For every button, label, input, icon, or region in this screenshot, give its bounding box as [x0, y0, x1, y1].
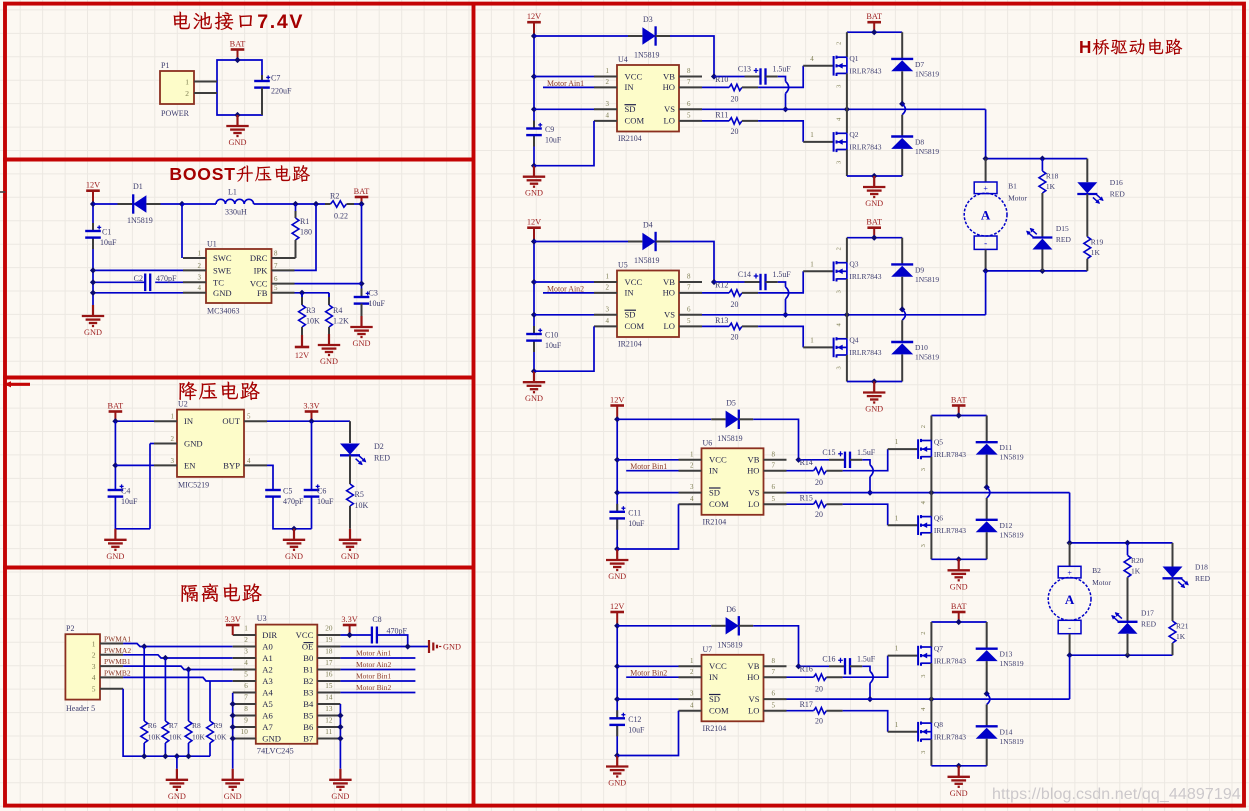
svg-text:1: 1 [606, 273, 610, 281]
svg-text:19: 19 [325, 636, 333, 644]
svg-text:GND: GND [950, 789, 968, 798]
svg-text:SD: SD [709, 694, 720, 704]
led D16 RED [1077, 159, 1125, 206]
svg-text:GND: GND [84, 328, 102, 337]
wire D18-R21 [1172, 578, 1174, 621]
wire OE to gnd [340, 646, 429, 648]
led D17 RED [1110, 608, 1157, 633]
wire SD U7 [617, 698, 678, 700]
wire R2-BAT [354, 203, 362, 205]
resistor R4 1.2K [326, 293, 349, 334]
svg-text:D14: D14 [1000, 727, 1013, 736]
wire VB to C16 [799, 665, 846, 667]
ground GND U7-bridge [948, 766, 970, 798]
svg-text:2: 2 [185, 89, 189, 98]
svg-text:C1: C1 [102, 228, 111, 237]
power 12V down boost [295, 335, 309, 360]
wire source rail U4 [847, 175, 902, 177]
ic U3 74LVC245 [233, 614, 341, 756]
svg-text:2: 2 [171, 435, 175, 443]
svg-text:3.3V: 3.3V [341, 615, 357, 624]
wire HO U6 [787, 470, 814, 472]
ground GND U3-right [329, 769, 351, 801]
svg-text:D13: D13 [1000, 650, 1013, 659]
wire BYP to C5 [267, 465, 273, 490]
node VCC-BAT junction [358, 281, 364, 287]
resistor R7 10K [162, 658, 182, 756]
wire VS3 corner to motor rail [1069, 493, 1071, 543]
node bootstrap-VS junction U6 [867, 490, 873, 496]
svg-text:GND: GND [229, 138, 247, 147]
node BAT junction U6 [956, 412, 962, 418]
svg-text:A1: A1 [262, 653, 273, 663]
wire LO U7 [787, 710, 814, 712]
node VB junction U6 [795, 457, 801, 463]
svg-text:6: 6 [274, 275, 278, 283]
ground GND C12 [606, 756, 628, 788]
diode D1 1N5819 [93, 182, 182, 225]
svg-text:D7: D7 [915, 60, 924, 69]
node FB junction [299, 290, 305, 296]
svg-text:BAT: BAT [354, 187, 370, 196]
svg-text:FB: FB [257, 288, 268, 298]
wire COM return U6 [617, 504, 678, 549]
node 12V-VCC junction U4 [531, 73, 537, 79]
wire R12 to gate [742, 260, 834, 293]
svg-text:1.5uF: 1.5uF [857, 448, 876, 457]
wire 12V rail U6 [616, 419, 618, 549]
wire BAT rail U7 [931, 621, 986, 623]
svg-text:3: 3 [920, 751, 927, 754]
transistor Q7 IRLR7843 [918, 622, 966, 699]
svg-text:C15: C15 [822, 448, 835, 457]
svg-text:220uF: 220uF [271, 87, 292, 96]
svg-text:6: 6 [244, 682, 248, 690]
svg-text:1N5819: 1N5819 [1000, 659, 1024, 668]
diode D11 1N5819 [976, 416, 1024, 488]
wire B4-B7 to ground rail [339, 704, 341, 769]
svg-text:4: 4 [277, 11, 288, 33]
svg-text:D1: D1 [133, 182, 143, 191]
node VCC junction [347, 632, 353, 638]
svg-text:VS: VS [664, 104, 675, 114]
resistor R5 10K [347, 484, 369, 529]
svg-text:2: 2 [606, 78, 610, 86]
svg-text:8: 8 [244, 705, 248, 713]
svg-text:GND: GND [353, 339, 371, 348]
ic U5 IR2104 [594, 261, 702, 349]
transistor Q5 IRLR7843 [918, 416, 966, 493]
resistor R6 10K [141, 647, 161, 757]
power bar 12V U6 [610, 395, 624, 419]
svg-text:C8: C8 [372, 615, 381, 624]
svg-text:EN: EN [184, 460, 196, 470]
resistor R18 1K [1039, 159, 1059, 193]
svg-text:Motor Ain1: Motor Ain1 [356, 649, 391, 658]
svg-text:1: 1 [895, 514, 899, 522]
diode D14 1N5819 [976, 705, 1024, 766]
svg-text:R5: R5 [355, 490, 364, 499]
ground GND pulldowns [166, 756, 188, 801]
svg-text:D11: D11 [1000, 443, 1013, 452]
svg-text:Q6: Q6 [934, 514, 943, 523]
svg-text:RED: RED [1195, 574, 1211, 583]
svg-text:10uF: 10uF [317, 497, 334, 506]
svg-text:https://blog.csdn.net/qq_44897: https://blog.csdn.net/qq_44897194 [992, 786, 1241, 803]
wire R20-D17 [1127, 577, 1129, 622]
svg-text:SD: SD [709, 487, 720, 497]
svg-text:.: . [270, 11, 275, 33]
power bar 12V boost [86, 181, 100, 205]
svg-text:1: 1 [690, 450, 694, 458]
svg-text:1K: 1K [1091, 248, 1101, 257]
node 12V-VCC junction U5 [531, 279, 537, 285]
svg-text:R14: R14 [800, 458, 813, 467]
svg-text:2: 2 [198, 262, 202, 270]
svg-text:12: 12 [325, 717, 333, 725]
wire VS U7 [787, 698, 1070, 700]
svg-text:VCC: VCC [625, 277, 643, 287]
svg-text:IN: IN [184, 416, 194, 426]
svg-text:3: 3 [690, 690, 694, 698]
node D17 bottom junction [1124, 652, 1130, 658]
power bar BAT U6 [951, 395, 967, 415]
ic U1 MC34063 [183, 240, 295, 316]
node R8 top junction [185, 666, 191, 672]
wire B1 to lower VS [985, 271, 987, 315]
svg-text:2: 2 [690, 461, 694, 469]
svg-text:Motor: Motor [1008, 194, 1027, 203]
svg-text:1N5819: 1N5819 [915, 147, 939, 156]
node R18 top junction [1039, 156, 1045, 162]
ground GND boost-left [82, 305, 104, 337]
node VS-Q junction U5 [844, 312, 850, 318]
capacitor C3 [354, 289, 386, 317]
node gnd rail junction [230, 701, 236, 707]
svg-text:GND: GND [443, 643, 461, 652]
svg-text:A3: A3 [262, 676, 273, 686]
svg-text:C3: C3 [369, 289, 378, 298]
svg-text:D18: D18 [1195, 562, 1208, 571]
svg-text:9: 9 [244, 717, 248, 725]
svg-text:Motor Ain2: Motor Ain2 [356, 660, 391, 669]
capacitor C4 [108, 484, 138, 506]
ground GND U5-bridge [863, 382, 885, 414]
svg-text:IRLR7843: IRLR7843 [934, 733, 966, 742]
svg-text:SWE: SWE [213, 265, 231, 275]
wire R1-DRC [272, 257, 296, 259]
svg-text:12V: 12V [295, 351, 309, 360]
svg-text:R16: R16 [800, 665, 813, 674]
wire D15 to rail [1041, 250, 1043, 271]
node 12V-VCC junction U6 [614, 457, 620, 463]
wire C5 bottom [273, 497, 312, 529]
wire 12V rail U4 [533, 36, 535, 166]
svg-text:1N5819: 1N5819 [1000, 737, 1024, 746]
svg-text:GND: GND [184, 439, 203, 449]
svg-text:SD: SD [625, 310, 636, 320]
svg-text:C9: C9 [545, 125, 554, 134]
svg-text:+: + [1067, 569, 1072, 578]
ground GND sideways [429, 640, 461, 653]
node 3.3V junction [308, 418, 314, 424]
svg-text:1K: 1K [1131, 566, 1141, 575]
svg-text:10K: 10K [192, 733, 206, 742]
resistor R11 20 [715, 110, 741, 136]
svg-text:8: 8 [687, 273, 691, 281]
svg-text:2: 2 [606, 284, 610, 292]
transistor Q6 IRLR7843 [918, 493, 966, 560]
svg-text:IN: IN [709, 672, 719, 682]
svg-text:P2: P2 [66, 624, 74, 633]
svg-text:C11: C11 [628, 508, 641, 517]
node B2- junction [1067, 652, 1073, 658]
svg-text:10uF: 10uF [545, 341, 562, 350]
wire R17 to gate [826, 711, 918, 732]
node L1-R1 junction [292, 201, 298, 207]
transistor Q3 IRLR7843 [834, 238, 882, 315]
wire VCC-BAT [295, 283, 362, 285]
svg-text:OUT: OUT [222, 416, 240, 426]
wire IN [115, 420, 154, 422]
wire L1-R2 [254, 203, 327, 205]
diode D5 1N5819 [617, 398, 798, 460]
diode D10 1N5819 [891, 320, 939, 381]
svg-text:1N5819: 1N5819 [717, 640, 742, 649]
svg-text:1: 1 [895, 438, 899, 446]
svg-text:5: 5 [687, 317, 691, 325]
node 12V-SD junction U7 [614, 696, 620, 702]
svg-text:GND: GND [608, 572, 626, 581]
svg-text:BAT: BAT [230, 39, 246, 48]
svg-text:SWC: SWC [213, 253, 232, 263]
svg-text:2: 2 [920, 425, 927, 428]
svg-text:GND: GND [341, 552, 359, 561]
svg-text:Q4: Q4 [849, 336, 858, 345]
svg-text:DIR: DIR [262, 630, 277, 640]
ground GND C10 [523, 371, 545, 403]
svg-text:Motor Bin1: Motor Bin1 [356, 672, 391, 681]
svg-text:74LVC245: 74LVC245 [257, 747, 294, 756]
wire net Motor Bin2 [340, 683, 415, 693]
node GND junction U5 [871, 378, 877, 384]
svg-text:C7: C7 [271, 74, 280, 83]
wire TC [93, 281, 183, 283]
svg-text:10uF: 10uF [100, 238, 117, 247]
svg-text:4: 4 [810, 55, 814, 63]
svg-text:2: 2 [920, 631, 927, 634]
node 12V-COM junction U7 [614, 752, 620, 758]
ground GND R4 [318, 334, 340, 366]
left edge arrow artifact [4, 381, 30, 387]
node SWE junction [90, 267, 96, 273]
svg-text:L1: L1 [228, 188, 237, 197]
svg-text:GND: GND [525, 394, 543, 403]
ground GND C3 [350, 316, 372, 348]
svg-text:O: O [183, 164, 197, 184]
svg-text:D3: D3 [643, 15, 653, 24]
power bar BAT U5 [866, 218, 882, 238]
wire R18-D15 [1041, 193, 1043, 238]
svg-text:8: 8 [772, 450, 776, 458]
svg-text:4: 4 [244, 659, 248, 667]
svg-text:4: 4 [606, 317, 610, 325]
svg-text:5: 5 [772, 701, 776, 709]
svg-text:COM: COM [625, 116, 645, 126]
svg-text:3: 3 [606, 100, 610, 108]
svg-text:GND: GND [331, 792, 349, 801]
svg-text:1N5819: 1N5819 [915, 69, 939, 78]
svg-text:4: 4 [690, 701, 694, 709]
wire SWE [93, 269, 183, 271]
svg-text:B7: B7 [303, 733, 314, 743]
svg-text:1N5819: 1N5819 [1000, 530, 1024, 539]
svg-text:1: 1 [895, 721, 899, 729]
svg-text:Q8: Q8 [934, 720, 943, 729]
svg-text:6: 6 [772, 483, 776, 491]
svg-text:1.2K: 1.2K [333, 317, 349, 326]
node 12V-D junction U5 [531, 238, 537, 244]
svg-text:10uF: 10uF [545, 136, 562, 145]
svg-text:10K: 10K [148, 733, 162, 742]
wire OUT to D2 [349, 421, 351, 443]
svg-text:MIC5219: MIC5219 [178, 481, 209, 490]
connector P1 [160, 61, 217, 118]
svg-text:8: 8 [274, 249, 278, 257]
node BAT junction U7 [956, 619, 962, 625]
svg-text:4: 4 [606, 112, 610, 120]
svg-text:GND: GND [224, 792, 242, 801]
svg-text:2: 2 [92, 651, 96, 660]
power bar BAT buck [108, 401, 124, 421]
node bootstrap-VS junction U4 [782, 106, 788, 112]
svg-text:10uF: 10uF [369, 299, 386, 308]
svg-text:B: B [169, 164, 182, 184]
svg-text:20: 20 [731, 300, 739, 309]
svg-text:LO: LO [664, 321, 675, 331]
svg-text:3.3V: 3.3V [225, 615, 241, 624]
wire VCC to C8 [340, 634, 372, 636]
svg-text:1: 1 [171, 413, 175, 421]
svg-text:3.3V: 3.3V [303, 401, 319, 410]
svg-text:GND: GND [608, 779, 626, 788]
svg-text:B2: B2 [1092, 566, 1101, 575]
svg-text:C4: C4 [121, 487, 130, 496]
svg-text:R21: R21 [1176, 622, 1189, 631]
node GNDpin junction [90, 290, 96, 296]
svg-text:2: 2 [835, 247, 842, 250]
wire VS U4 [702, 108, 986, 110]
wire C16 to VS [850, 666, 873, 699]
svg-text:Q7: Q7 [934, 644, 943, 653]
wire net PWMB1 [104, 657, 233, 669]
svg-text:IPK: IPK [254, 265, 269, 275]
svg-text:470pF: 470pF [156, 274, 177, 283]
svg-text:U1: U1 [207, 240, 217, 249]
svg-text:BAT: BAT [866, 12, 882, 21]
ic U2 MIC5219 [154, 400, 267, 490]
svg-text:R11: R11 [715, 110, 728, 119]
node R8 bottom junction [185, 753, 191, 759]
node B1- junction [983, 268, 989, 274]
divider boost/buck [3, 376, 474, 380]
svg-text:BAT: BAT [951, 395, 967, 404]
node B rail junction [337, 724, 343, 730]
svg-text:PWMA1: PWMA1 [104, 635, 131, 644]
svg-text:B1: B1 [303, 664, 313, 674]
svg-text:7: 7 [772, 461, 776, 469]
svg-text:VS: VS [749, 487, 760, 497]
node D1 out junction [179, 201, 185, 207]
diode D13 1N5819 [976, 622, 1024, 694]
svg-text:C16: C16 [822, 654, 835, 663]
transistor Q4 IRLR7843 [834, 315, 882, 382]
svg-text:IN: IN [625, 82, 635, 92]
node R7 bottom junction [162, 753, 168, 759]
node GND junction U6 [956, 556, 962, 562]
svg-text:B2: B2 [303, 676, 313, 686]
node BAT rail junction [358, 201, 364, 207]
node IN junction [112, 418, 118, 424]
connector P2 Header5 [65, 624, 123, 713]
wire BAT down to VCC/C3 [361, 204, 363, 289]
svg-text:VB: VB [748, 661, 760, 671]
wire COM return U7 [617, 711, 678, 756]
svg-text:RED: RED [374, 454, 390, 463]
node 12V-COM junction U6 [614, 546, 620, 552]
node 12V-D junction U6 [614, 416, 620, 422]
wire EN [115, 464, 154, 466]
node R6 bottom junction [141, 753, 147, 759]
svg-text:6: 6 [687, 305, 691, 313]
node OE junction [405, 643, 411, 649]
resistor R8 10K [185, 670, 205, 757]
wire OUT 3.3V [267, 420, 350, 422]
wire 12V rail U7 [616, 626, 618, 756]
svg-text:1N5819: 1N5819 [127, 216, 153, 225]
svg-text:C12: C12 [628, 715, 641, 724]
svg-text:7: 7 [772, 668, 776, 676]
svg-text:5: 5 [772, 495, 776, 503]
svg-text:IRLR7843: IRLR7843 [849, 143, 881, 152]
svg-text:D8: D8 [915, 138, 924, 147]
svg-text:D10: D10 [915, 343, 928, 352]
svg-text:D12: D12 [1000, 521, 1013, 530]
wire A4-A7,GND to ground rail [232, 693, 234, 769]
wire VS U5 [702, 314, 986, 316]
svg-text:A: A [981, 208, 991, 223]
svg-text:COM: COM [709, 499, 729, 509]
title 降压电路 [179, 381, 259, 400]
node 12V-D1 junction [90, 201, 96, 207]
node 12V-D junction U4 [531, 33, 537, 39]
node GND junction U7 [956, 763, 962, 769]
svg-text:14: 14 [325, 694, 333, 702]
svg-text:20: 20 [325, 625, 333, 633]
svg-text:4: 4 [247, 457, 251, 465]
wire net Motor Bin1 [626, 462, 678, 471]
node D13-VS junction [984, 691, 990, 697]
svg-text:4: 4 [198, 284, 202, 292]
svg-text:R12: R12 [715, 280, 728, 289]
node D7-VS junction [899, 101, 905, 107]
svg-text:R2: R2 [330, 192, 339, 201]
svg-text:R3: R3 [306, 306, 315, 315]
svg-text:IRLR7843: IRLR7843 [934, 450, 966, 459]
wire D7 hop over VS [902, 104, 905, 115]
svg-text:6: 6 [772, 690, 776, 698]
svg-text:A2: A2 [262, 664, 273, 674]
